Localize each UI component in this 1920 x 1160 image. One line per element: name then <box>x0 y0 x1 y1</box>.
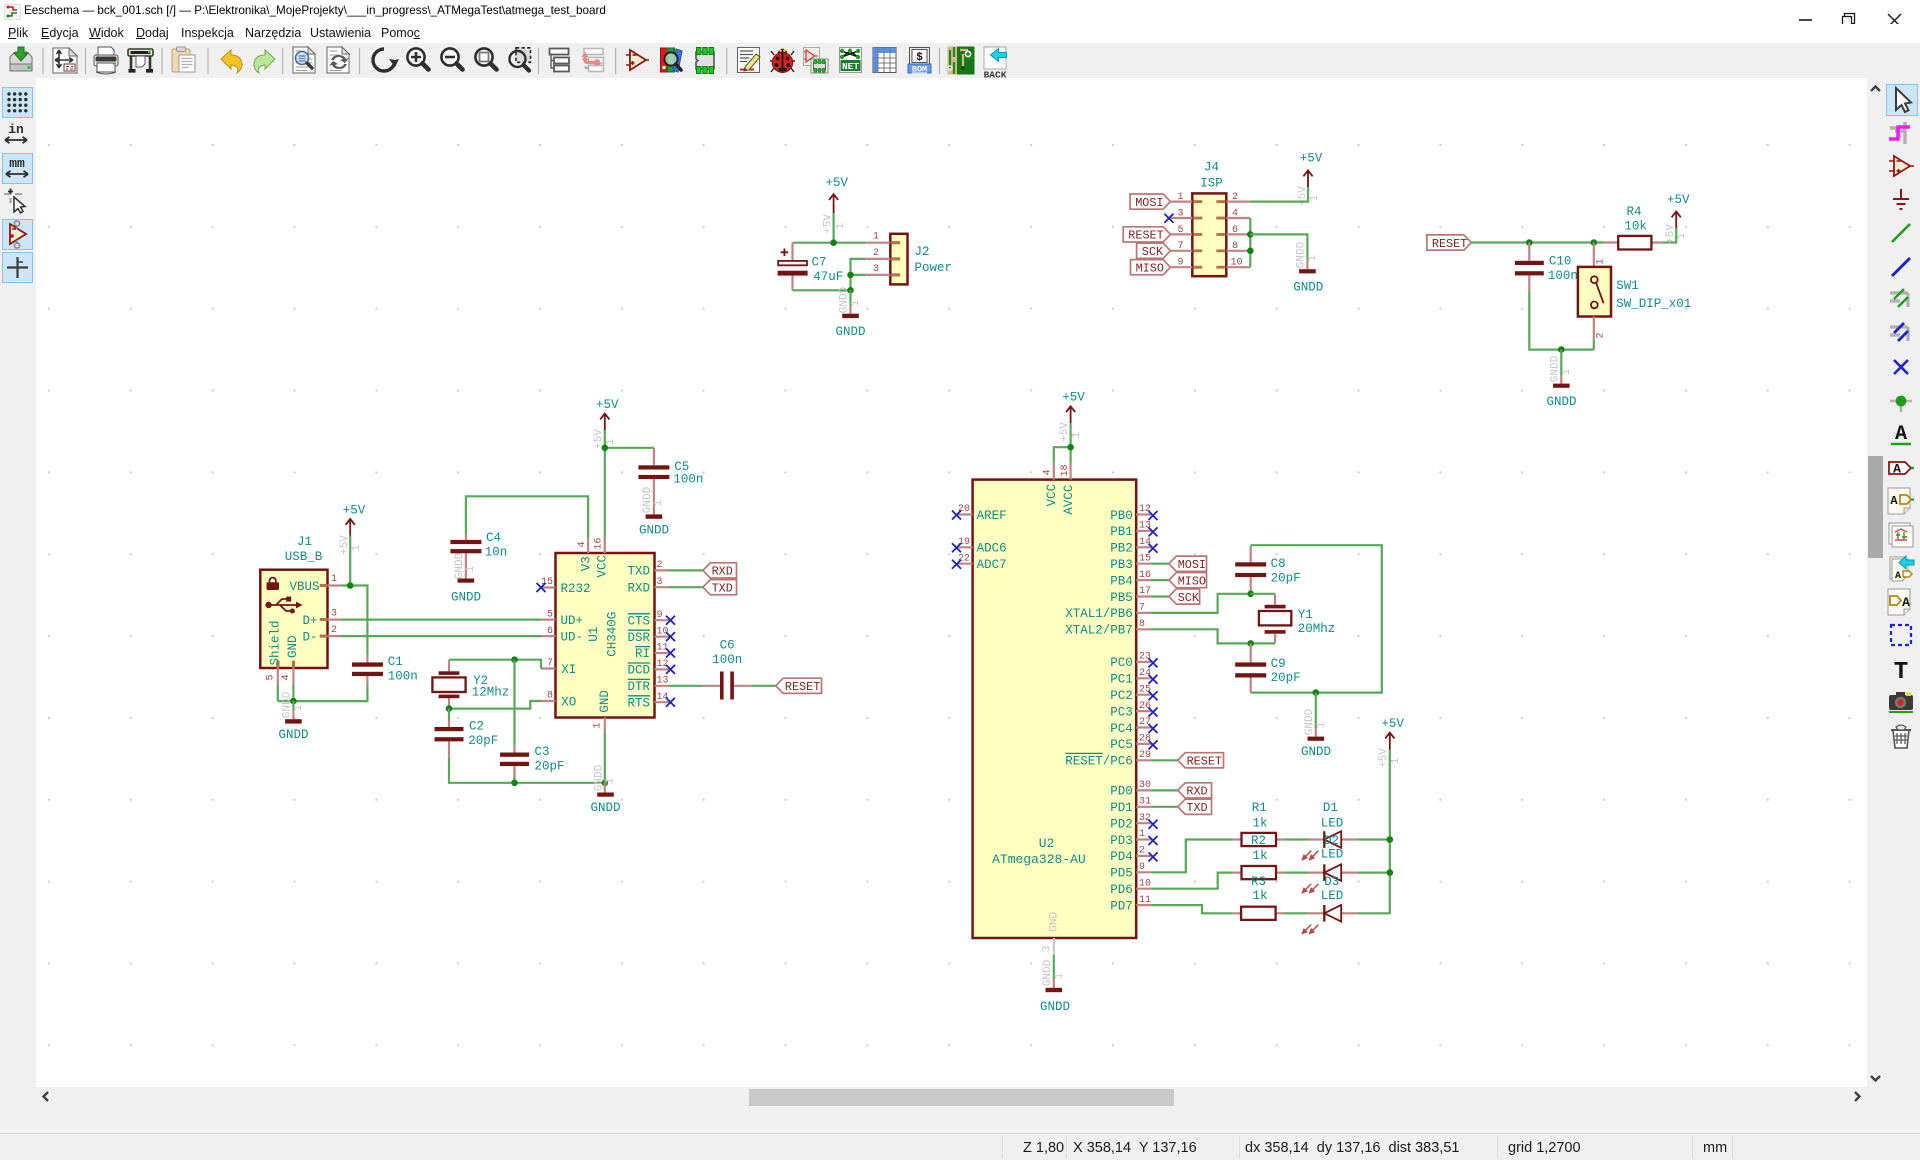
svg-text:2: 2 <box>1232 192 1238 203</box>
svg-text:47uF: 47uF <box>813 270 843 284</box>
svg-text:LED: LED <box>1321 889 1344 903</box>
svg-text:+5V: +5V <box>596 398 619 412</box>
no-connect U1 pin12 <box>666 665 675 674</box>
wire D+ J1 to U1 <box>341 618 541 620</box>
svg-text:12Mhz: 12Mhz <box>472 686 510 700</box>
svg-text:C9: C9 <box>1271 657 1286 671</box>
print <box>94 47 118 74</box>
svg-text:PD0: PD0 <box>1110 785 1133 799</box>
svg-text:+5V: +5V <box>1062 391 1085 405</box>
svg-text:MOSI: MOSI <box>1178 558 1206 572</box>
svg-text:PD5: PD5 <box>1110 867 1133 881</box>
undo <box>221 50 242 73</box>
svg-text:19: 19 <box>958 537 970 548</box>
svg-text:A: A <box>1895 423 1907 446</box>
ground GNDD (U2 area) <box>1040 959 1070 1013</box>
BOM <box>908 48 931 75</box>
library browser <box>661 48 683 72</box>
svg-text:1: 1 <box>835 222 847 229</box>
vertical scrollbar <box>1867 78 1884 1088</box>
svg-text:9: 9 <box>657 610 663 621</box>
wire SW1 pin2 to ground rail <box>1593 340 1595 349</box>
svg-text:3: 3 <box>331 608 337 619</box>
svg-text:27: 27 <box>1139 717 1151 728</box>
svg-text:D1: D1 <box>1323 801 1338 815</box>
svg-text:24: 24 <box>1139 668 1151 679</box>
svg-text:DTR: DTR <box>627 680 650 694</box>
svg-text:J1: J1 <box>297 535 312 549</box>
svg-text:+5V: +5V <box>343 504 366 518</box>
global label RXD (U2) <box>1178 783 1212 799</box>
global label RESET (U2) <box>1178 753 1224 769</box>
svg-text:A: A <box>1895 571 1901 582</box>
wire crystal cap rails <box>1251 545 1382 692</box>
paste <box>172 47 195 72</box>
svg-text:3: 3 <box>873 264 879 275</box>
svg-text:PB3: PB3 <box>1110 558 1133 572</box>
svg-text:29: 29 <box>1139 750 1151 761</box>
svg-text:9: 9 <box>1177 258 1183 269</box>
svg-text:D-: D- <box>303 630 318 644</box>
ground GNDD (SW1 area) <box>1546 355 1576 409</box>
wire R4 to +5V <box>1663 227 1677 243</box>
LED D2 <box>1303 834 1358 893</box>
svg-text:RESET/PC6: RESET/PC6 <box>1065 755 1133 769</box>
status bar <box>0 1134 1920 1160</box>
svg-text:3: 3 <box>657 577 663 588</box>
node junction crystal top <box>1247 591 1254 598</box>
capacitor C1 100n <box>352 655 418 684</box>
svg-text:GND: GND <box>598 690 612 713</box>
svg-text:U1: U1 <box>587 627 601 642</box>
netlist NET <box>840 48 862 73</box>
wire D- J1 to U1 <box>341 635 541 637</box>
node junction U1 +5V <box>602 445 609 452</box>
svg-text:1k: 1k <box>1253 849 1268 863</box>
svg-text:J4: J4 <box>1204 161 1219 175</box>
global label RESET (C6) <box>776 678 822 694</box>
svg-text:PB5: PB5 <box>1110 591 1133 605</box>
svg-text:+5V: +5V <box>1667 193 1690 207</box>
svg-text:V3: V3 <box>579 556 593 571</box>
svg-text:100n: 100n <box>673 473 703 487</box>
svg-text:Power: Power <box>915 261 953 275</box>
find replace <box>327 47 349 73</box>
svg-text:2: 2 <box>1139 846 1145 857</box>
svg-text:1: 1 <box>1315 721 1327 728</box>
svg-text:13: 13 <box>1139 521 1151 532</box>
svg-text:U2: U2 <box>1039 836 1055 851</box>
no-connect U1 pin10 <box>666 632 675 641</box>
svg-text:11: 11 <box>1139 895 1151 906</box>
svg-text:USB_B: USB_B <box>285 550 323 564</box>
svg-text:PD7: PD7 <box>1110 899 1133 913</box>
svg-text:PB4: PB4 <box>1110 574 1133 588</box>
wire U1 DTR to C6 <box>669 685 703 687</box>
svg-text:R2: R2 <box>1251 834 1266 848</box>
zoom selection <box>510 48 531 71</box>
wire ISP ground run <box>1250 234 1307 260</box>
svg-text:10n: 10n <box>485 546 508 560</box>
no-connect U2 PB0 <box>1149 511 1158 520</box>
node junction ISP pin8 <box>1247 248 1254 255</box>
svg-text:C4: C4 <box>486 531 501 545</box>
svg-text:PB1: PB1 <box>1110 525 1133 539</box>
wire ISP pins 4-10 bus tie <box>1249 218 1251 267</box>
svg-text:+5V: +5V <box>1300 152 1323 166</box>
capacitor C5 100n <box>638 448 703 515</box>
svg-text:1: 1 <box>850 299 862 306</box>
no-connect U1 pin11 <box>666 649 675 658</box>
svg-text:PD1: PD1 <box>1110 801 1133 815</box>
symbol table <box>873 48 896 73</box>
svg-text:C7: C7 <box>812 256 827 270</box>
capacitor C4 10n <box>450 531 507 578</box>
top toolbar placeholder <box>0 43 1920 78</box>
svg-text:1: 1 <box>593 722 604 728</box>
svg-text:GNDD: GNDD <box>1546 395 1576 409</box>
wire R1 to D1 <box>1284 838 1307 840</box>
global label SCK (ISP) <box>1137 243 1171 259</box>
wire J2 pin2 to pin3 <box>851 259 867 275</box>
node junction at C10 <box>1526 239 1533 246</box>
no-connect J4 pin3 <box>1164 214 1173 223</box>
wire R3 to D3 <box>1284 912 1307 914</box>
svg-text:31: 31 <box>1139 797 1151 808</box>
capacitor C2 20pF <box>435 709 499 758</box>
svg-text:2: 2 <box>331 625 337 636</box>
no-connect U2 PD4 <box>1149 852 1158 861</box>
global label MOSI (U2) <box>1169 556 1207 572</box>
svg-text:GNDD: GNDD <box>1042 959 1054 986</box>
save <box>10 47 32 71</box>
svg-text:GNDD: GNDD <box>1301 745 1331 759</box>
svg-text:ISP: ISP <box>1200 176 1223 190</box>
ground GNDD (J1 area) <box>278 691 308 742</box>
capacitor C10 100n <box>1515 243 1578 292</box>
node junction J1 ground <box>290 698 297 705</box>
svg-text:SCK: SCK <box>1178 591 1200 605</box>
svg-text:1: 1 <box>1307 254 1319 261</box>
svg-text:A: A <box>1893 461 1901 476</box>
svg-text:D2: D2 <box>1324 834 1339 848</box>
node junction VBUS <box>347 582 354 589</box>
pcbnew <box>948 47 975 75</box>
svg-text:RXD: RXD <box>1186 785 1207 799</box>
svg-text:1: 1 <box>873 232 879 243</box>
node junction LED rail 1 <box>1387 836 1394 843</box>
svg-text:100n: 100n <box>388 670 418 684</box>
svg-text:ATmega328-AU: ATmega328-AU <box>992 852 1086 867</box>
svg-text:D3: D3 <box>1324 875 1339 889</box>
footprint chip <box>696 48 714 74</box>
svg-text:PC2: PC2 <box>1110 689 1133 703</box>
capacitor C6 100n (series) <box>703 638 752 699</box>
svg-text:5: 5 <box>266 674 277 680</box>
node junction at +5V/J2 <box>830 239 837 246</box>
node junction crystal ground <box>1313 689 1320 696</box>
no-connect U2 PC3 <box>1149 708 1158 717</box>
resistor R4 10k <box>1605 205 1663 250</box>
svg-text:RESET: RESET <box>1187 755 1222 769</box>
svg-text:+5V: +5V <box>1381 717 1404 731</box>
resistor R1 1k <box>1233 801 1285 846</box>
svg-text:PD6: PD6 <box>1110 883 1133 897</box>
svg-text:PC1: PC1 <box>1110 673 1133 687</box>
node junction C3 ground <box>511 780 518 787</box>
svg-text:23: 23 <box>1139 652 1151 663</box>
node junction XO node <box>446 705 453 712</box>
svg-text:PC0: PC0 <box>1110 656 1133 670</box>
svg-text:LED: LED <box>1321 847 1344 861</box>
capacitor C9 20pF <box>1235 643 1300 692</box>
svg-text:22: 22 <box>958 553 970 564</box>
svg-text:GNDD: GNDD <box>1304 708 1316 735</box>
svg-text:RESET: RESET <box>785 680 820 694</box>
svg-text:GND: GND <box>1049 912 1061 932</box>
capacitor C3 20pF <box>500 660 565 776</box>
wire J2 pin3 down <box>851 275 867 290</box>
svg-text:PD2: PD2 <box>1110 818 1133 832</box>
wire U2 PD6 to R2 <box>1152 873 1233 889</box>
svg-text:17: 17 <box>1139 586 1151 597</box>
svg-text:MISO: MISO <box>1178 574 1206 588</box>
ground GNDD (C5) <box>639 486 669 537</box>
power flag +5V (J2 area) <box>823 176 849 234</box>
no-connect U2 PC2 <box>1149 691 1158 700</box>
svg-text:LED: LED <box>1321 816 1344 830</box>
svg-text:100n: 100n <box>1548 269 1578 283</box>
no-connect U2 PB1 <box>1149 527 1158 536</box>
svg-text:10: 10 <box>1231 258 1243 269</box>
opamp annotate <box>626 50 649 70</box>
power flag +5V (J1 area) <box>339 504 366 555</box>
svg-text:10: 10 <box>1139 878 1151 889</box>
svg-text:GNDD: GNDD <box>1296 241 1308 268</box>
global label RXD (U1) <box>703 563 737 579</box>
no-connect U2 PC5 <box>1149 740 1158 749</box>
wire U2 PB3 to MOSI <box>1152 563 1169 565</box>
power flag +5V (U2 area) <box>1059 391 1085 442</box>
global label MISO (U2) <box>1169 573 1207 589</box>
svg-text:UD-: UD- <box>561 631 584 645</box>
wire U2 GND pin to GNDD <box>1053 955 1055 979</box>
svg-text:4: 4 <box>281 674 292 680</box>
ground GNDD (U1 area) <box>590 764 620 815</box>
svg-text:GNDD: GNDD <box>1040 1000 1070 1014</box>
wire ground rail to GNDD <box>1560 350 1562 375</box>
wire U2 PD0 to RXD <box>1152 789 1178 791</box>
no-connect U2 PC4 <box>1149 724 1158 733</box>
svg-text:1: 1 <box>1676 232 1688 239</box>
svg-text:NET: NET <box>842 61 859 72</box>
node junction at SW1 <box>1591 239 1598 246</box>
svg-text:R3: R3 <box>1251 875 1266 889</box>
switch SW1 SW_DIP_x01 <box>1578 243 1691 341</box>
node junction ground rail <box>1558 346 1565 353</box>
crystal Y1 20Mhz <box>1251 594 1336 644</box>
svg-text:3: 3 <box>1041 946 1053 953</box>
svg-text:26: 26 <box>1139 701 1151 712</box>
svg-text:15: 15 <box>1139 553 1151 564</box>
svg-text:C1: C1 <box>388 655 403 669</box>
svg-text:GNDD: GNDD <box>1550 355 1562 382</box>
wire +5V down to VBUS <box>349 536 351 586</box>
hierarchy navigator <box>550 49 570 72</box>
wire U2 PD1 to TXD <box>1152 806 1178 808</box>
wire U2 PD5 to R1 <box>1152 840 1233 873</box>
svg-text:GNDD: GNDD <box>451 591 481 605</box>
global label TXD (U1) <box>703 580 737 596</box>
svg-text:CTS: CTS <box>627 614 650 628</box>
svg-text:RI: RI <box>635 647 650 661</box>
menu bar <box>0 24 1920 43</box>
wire U1 TXD to RXD label <box>669 569 703 571</box>
svg-text:MISO: MISO <box>1136 262 1164 276</box>
svg-text:4: 4 <box>1232 208 1238 219</box>
crystal Y2 12Mhz <box>432 660 509 709</box>
svg-text:XO: XO <box>561 695 576 709</box>
svg-text:1: 1 <box>1595 258 1606 264</box>
svg-text:RTS: RTS <box>627 696 650 710</box>
svg-text:GNDD: GNDD <box>642 486 654 513</box>
LED D3 <box>1303 875 1358 933</box>
svg-text:C2: C2 <box>469 720 484 734</box>
svg-text:MOSI: MOSI <box>1135 196 1163 210</box>
svg-text:J2: J2 <box>915 245 930 259</box>
svg-text:R4: R4 <box>1627 205 1642 219</box>
svg-text:C10: C10 <box>1549 255 1572 269</box>
svg-text:20: 20 <box>958 504 970 515</box>
svg-text:8: 8 <box>1232 241 1238 252</box>
svg-text:in: in <box>8 122 24 137</box>
wire XTAL2 to crystal node <box>1152 629 1251 643</box>
wire RESET net to R4 <box>1471 241 1604 243</box>
wire C4 up and over to U1 V3 <box>466 496 588 537</box>
power flag +5V (U1 area) <box>593 398 619 449</box>
svg-text:DCD: DCD <box>627 664 650 678</box>
no-connect U2 PC0 <box>1149 658 1158 667</box>
connector J2 Power <box>866 232 952 285</box>
no-connect U1 pin14 <box>666 698 675 707</box>
resistor R2 1k <box>1233 834 1285 879</box>
svg-text:1: 1 <box>1309 194 1321 201</box>
svg-text:A: A <box>1902 595 1910 610</box>
wire U1 RXD to TXD label <box>669 586 703 588</box>
svg-text:1: 1 <box>605 777 617 784</box>
wire U1 XI to crystal <box>449 660 541 669</box>
svg-text:+5V: +5V <box>1059 422 1071 442</box>
wire +5V LED rail <box>1358 750 1390 914</box>
wire D2 to +5V rail <box>1358 871 1390 873</box>
svg-text:C3: C3 <box>535 745 550 759</box>
power flag +5V (ISP area) <box>1297 152 1323 206</box>
ladybug erc <box>770 49 795 73</box>
svg-text:Y1: Y1 <box>1298 608 1313 622</box>
global label TXD (U2) <box>1178 799 1212 815</box>
svg-text:8: 8 <box>547 691 553 702</box>
svg-text:1: 1 <box>1071 431 1083 438</box>
wire crystal ground run <box>449 758 605 783</box>
svg-text:GNDD: GNDD <box>639 524 669 538</box>
svg-text:5: 5 <box>1177 225 1183 236</box>
refresh <box>373 49 399 71</box>
connector J4 ISP <box>1170 161 1250 277</box>
svg-text:18: 18 <box>1060 464 1071 476</box>
svg-text:GNDD: GNDD <box>593 764 605 791</box>
svg-text:16: 16 <box>594 538 605 550</box>
svg-text:SCK: SCK <box>1142 245 1164 259</box>
svg-text:+5V: +5V <box>1665 224 1677 244</box>
wire J1 shield/gnd pins down <box>278 684 294 701</box>
svg-text:C6: C6 <box>720 638 735 652</box>
svg-text:ADC7: ADC7 <box>977 558 1007 572</box>
svg-text:6: 6 <box>547 626 553 637</box>
svg-text:PB2: PB2 <box>1110 542 1133 556</box>
wire +5V to U1 VCC and C5 <box>605 430 654 538</box>
svg-text:GNDD: GNDD <box>278 728 308 742</box>
svg-text:2: 2 <box>657 560 663 571</box>
find <box>293 47 315 73</box>
svg-text:GNDD: GNDD <box>590 801 620 815</box>
svg-text:PD4: PD4 <box>1110 850 1133 864</box>
no-connect U2 pin22 ADC7 <box>952 560 961 569</box>
ground GNDD (ISP area) <box>1293 241 1323 294</box>
left toolbar <box>0 78 36 1106</box>
right toolbar <box>1884 78 1920 1106</box>
svg-text:1: 1 <box>331 574 337 585</box>
wire C10 to ground rail <box>1529 292 1594 350</box>
svg-text:1k: 1k <box>1253 816 1268 830</box>
connector J1 USB_B <box>260 535 341 684</box>
svg-text:1: 1 <box>605 438 617 445</box>
svg-text:20Mhz: 20Mhz <box>1298 622 1336 636</box>
plot <box>128 49 153 73</box>
svg-text:12: 12 <box>1139 504 1151 515</box>
svg-text:20pF: 20pF <box>468 734 498 748</box>
svg-text:GNDD: GNDD <box>282 691 294 718</box>
wire U1 XO dogleg <box>449 701 541 709</box>
svg-text:TXD: TXD <box>627 565 650 579</box>
redo <box>254 50 275 73</box>
svg-text:14: 14 <box>1139 537 1151 548</box>
wire junction right to J2 pin1 <box>834 242 867 244</box>
svg-text:6: 6 <box>1232 225 1238 236</box>
svg-text:T: T <box>1894 659 1908 684</box>
IC U2 ATmega328-AU <box>958 463 1152 955</box>
svg-text:mm: mm <box>9 156 25 171</box>
svg-text:1k: 1k <box>1253 889 1268 903</box>
svg-text:3: 3 <box>1177 208 1183 219</box>
svg-text:30: 30 <box>1139 780 1151 791</box>
wire U2 PB5 to SCK <box>1152 595 1169 597</box>
global label MISO (ISP) <box>1131 260 1171 276</box>
svg-text:TXD: TXD <box>712 582 733 596</box>
svg-text:20pF: 20pF <box>1271 572 1301 586</box>
power flag +5V (LED rail) <box>1378 717 1404 768</box>
horizontal scrollbar <box>36 1087 1884 1106</box>
ground GNDD (C4) <box>451 552 481 604</box>
svg-text:PC3: PC3 <box>1110 705 1133 719</box>
svg-text:10k: 10k <box>1624 220 1647 234</box>
svg-text:C8: C8 <box>1271 557 1286 571</box>
svg-text:$: $ <box>916 52 923 64</box>
leave sheet <box>582 49 604 72</box>
capacitor C8 20pF <box>1235 545 1300 594</box>
svg-text:DSR: DSR <box>627 631 650 645</box>
node junction ISP pin6 <box>1247 231 1254 238</box>
resistor R3 1k <box>1233 875 1285 920</box>
